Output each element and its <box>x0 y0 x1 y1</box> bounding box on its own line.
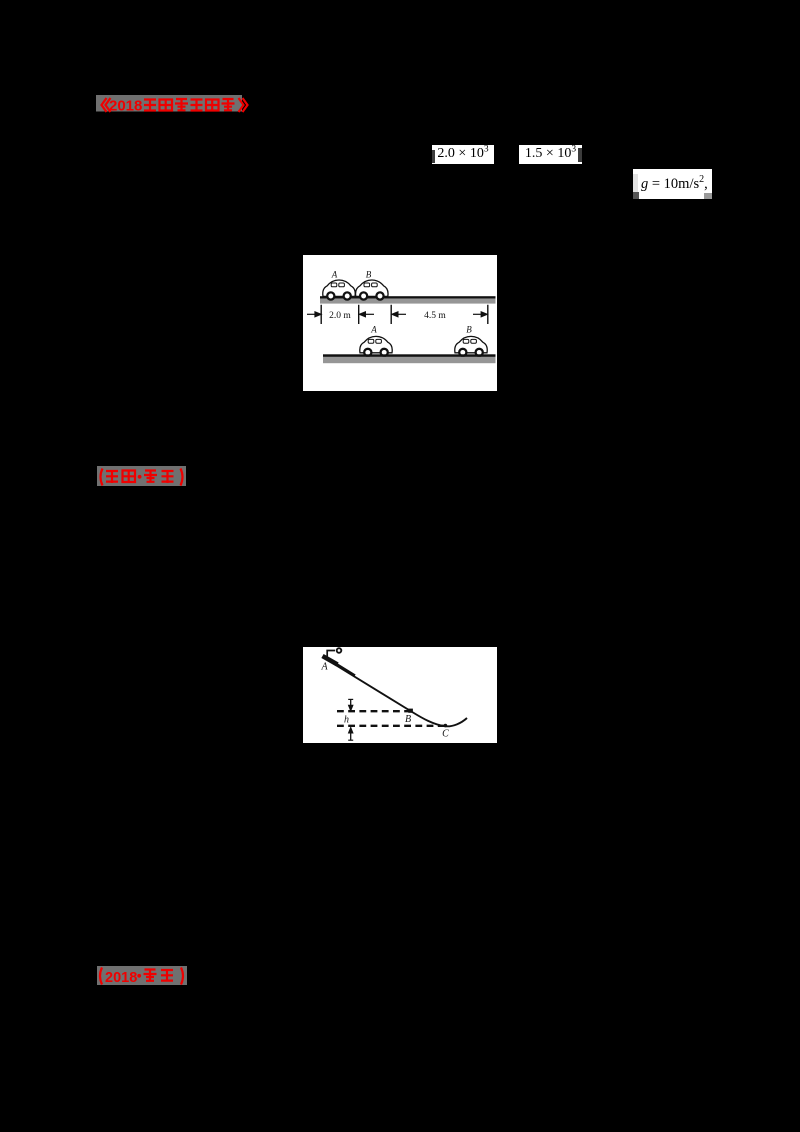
tag1: red highlighted source tag <box>96 91 252 117</box>
incline figure <box>303 647 497 743</box>
svg-text:B: B <box>366 270 372 280</box>
dimension ticks <box>321 305 488 324</box>
svg-text:4.5 m: 4.5 m <box>424 311 446 321</box>
down arrow above B line <box>348 699 353 710</box>
dimension arrows <box>307 312 487 317</box>
formula box g = 10 m/s^2 <box>633 169 712 199</box>
svg-text:C: C <box>442 729 449 740</box>
formula box m_B = 1.5x10^3 <box>519 145 582 164</box>
svg-text:h: h <box>344 715 349 726</box>
skier <box>323 648 356 675</box>
tag2 <box>95 464 195 490</box>
car A bottom <box>360 336 392 356</box>
point C dot <box>444 724 448 728</box>
svg-text:2018: 2018 <box>109 98 142 115</box>
slope line A to B to C <box>323 657 467 726</box>
car B bottom <box>455 336 487 356</box>
formula box m_A = 2.0x10^3 <box>432 145 494 164</box>
svg-text:A: A <box>370 325 377 335</box>
up arrow below C line <box>348 727 353 740</box>
svg-text:B: B <box>466 325 472 335</box>
tag3 <box>95 964 195 989</box>
svg-text:B: B <box>405 714 411 725</box>
svg-text:2018: 2018 <box>105 970 137 986</box>
road bottom <box>323 354 496 357</box>
dashed line at B level <box>337 710 412 712</box>
svg-text:A: A <box>320 662 328 673</box>
svg-text:A: A <box>331 270 338 280</box>
dashed line at C level <box>337 725 449 727</box>
road top <box>320 296 496 298</box>
car A top <box>323 280 355 300</box>
point B dot <box>408 709 413 713</box>
svg-text:2.0 m: 2.0 m <box>329 311 351 321</box>
cars figure <box>303 255 497 391</box>
car B top <box>356 280 388 300</box>
